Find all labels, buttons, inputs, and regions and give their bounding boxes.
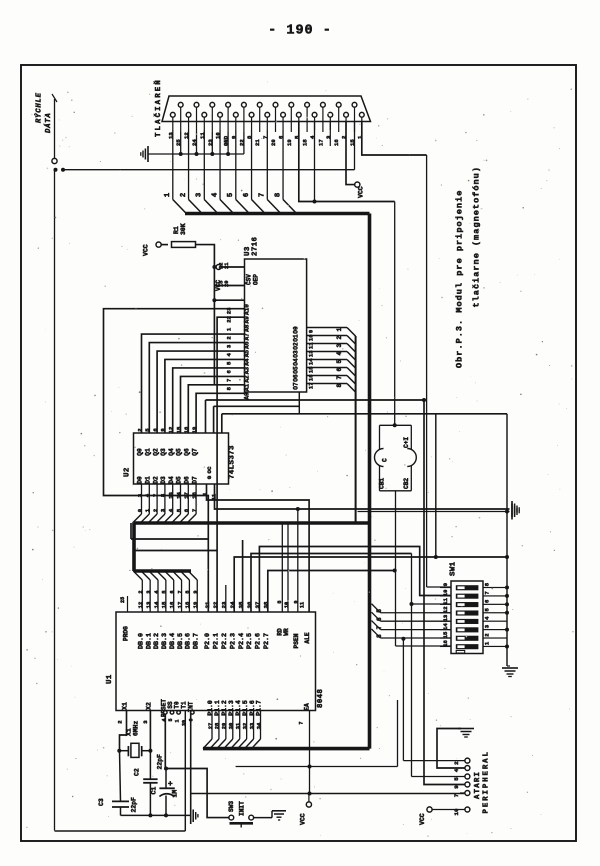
ground at OC line [512,501,519,517]
svg-text:DB.4: DB.4 [169,633,177,649]
svg-text:P2.4: P2.4 [238,633,246,649]
svg-text:9: 9 [453,785,460,789]
U2 pin labels [136,426,198,499]
bus thick vertical right [368,214,372,749]
svg-text:11: 11 [308,342,315,349]
wire U2 OC to ground line [215,484,510,509]
svg-text:3: 3 [196,193,204,197]
svg-text:4: 4 [336,352,343,356]
svg-text:7: 7 [177,590,183,593]
svg-text:D5: D5 [176,476,183,484]
svg-text:5: 5 [453,777,460,781]
U1 P1 pins slant to bus [203,711,261,749]
svg-text:OC: OC [206,466,213,473]
svg-text:2: 2 [226,336,233,340]
wire P2.2 riser [225,585,227,612]
svg-text:5: 5 [227,193,235,197]
svg-text:6: 6 [243,193,251,197]
power VCC at R1 [143,242,169,256]
svg-text:16: 16 [308,374,315,381]
svg-text:PROG: PROG [123,626,130,641]
wire SW1 row7 to ATARI [401,637,405,761]
wire CB bottom [380,491,412,646]
label PROG pin25 [120,596,130,641]
svg-text:6: 6 [376,617,383,621]
wire stub bus links [131,523,217,551]
svg-text:4: 4 [144,493,151,497]
svg-text:TLAČIAREŇ: TLAČIAREŇ [153,78,163,137]
svg-text:22pF: 22pF [157,754,164,770]
svg-text:9: 9 [442,582,449,586]
svg-text:P2.2: P2.2 [221,633,229,649]
svg-text:DB.1: DB.1 [145,633,153,649]
connector top pin stubs and numbers [175,107,356,146]
wires thick-bus taps to SW1 rows 4-7 [372,604,452,638]
U2 OC G labels [203,466,218,500]
svg-text:ALE: ALE [304,632,311,643]
wire to ground below SW1 [507,665,510,667]
svg-text:5: 5 [376,609,383,613]
wire ATARI pin2 [403,760,465,762]
svg-text:21: 21 [224,263,230,269]
wire bottom long to ATARI pin7 [191,793,465,795]
label U1 [106,674,114,684]
wire A9 to P2.0 [104,309,245,612]
wire x411 down to ATARI [411,604,413,777]
svg-text:PSEN: PSEN [293,633,300,648]
bus thick P1 horizontal [203,747,370,751]
svg-text:39: 39 [181,720,187,726]
wire ground line y511 [358,510,510,514]
svg-text:DB.0: DB.0 [138,633,146,649]
U1 P1 pin labels [207,700,263,729]
svg-text:C3: C3 [98,798,105,806]
svg-text:2: 2 [152,508,159,512]
wire RYCHLE data long horizontal [63,122,355,170]
bus slants into U1 DB pins [133,571,197,612]
wire mid horizontal y406 [214,406,300,433]
wire RESET down [164,714,168,771]
svg-text:8: 8 [484,582,491,586]
svg-text:19: 19 [191,426,198,433]
svg-text:Obr.P.3. Modul pre pripojeni: Obr.P.3. Modul pre pripojenie [455,190,465,368]
svg-text:Q0: Q0 [137,448,144,456]
IC U2 74LS373 box [134,433,229,484]
svg-text:O1: O1 [293,334,300,342]
label 74LS373 [229,445,237,479]
U1 EA label [299,703,311,725]
power VCC near connector [355,182,365,198]
svg-text:25: 25 [120,597,126,603]
svg-text:O0: O0 [293,326,300,334]
wire ATARI pin9 [422,398,465,785]
svg-text:DB.5: DB.5 [177,633,185,649]
ground symbol below SW1 [502,668,518,677]
svg-text:7: 7 [484,591,491,594]
svg-text:C1: C1 [151,787,158,795]
label U2 [124,467,132,477]
svg-text:4: 4 [154,590,160,593]
svg-text:20: 20 [270,139,277,146]
wire pin14 to vcc-node [362,122,427,156]
svg-text:INIT: INIT [239,801,246,816]
svg-text:8: 8 [274,193,282,197]
svg-text:2: 2 [138,590,144,593]
svg-text:8048: 8048 [317,688,325,708]
wire slants into data bus [173,200,297,214]
caption line 2 [472,166,482,307]
svg-text:1: 1 [144,508,151,512]
label RYCHLE DATA [35,92,58,133]
wire PSEN join [296,507,300,511]
wire P2.3 riser [234,555,509,612]
wire CS stub into U3 [214,285,244,287]
ground symbol SW3 [272,811,286,820]
svg-text:DB.3: DB.3 [161,633,169,649]
label TLACIAREN [153,78,163,137]
ground symbol ATARI [458,729,474,738]
svg-text:PERIPHERAL: PERIPHERAL [483,750,491,813]
node dot CS A10 [212,265,216,302]
svg-text:R1: R1 [173,226,180,234]
svg-text:OEP: OEP [253,274,260,285]
svg-text:8: 8 [185,590,191,593]
wire bottom-left horizontal to T1 [55,830,186,832]
capacitor C3 [98,751,138,816]
svg-text:6: 6 [484,599,491,603]
svg-text:3: 3 [136,493,143,497]
capacitor C2 [133,751,163,818]
svg-text:DB.6: DB.6 [185,633,193,649]
wire PSEN up [297,509,299,612]
svg-text:1: 1 [484,641,491,645]
SW1 slider elements [456,585,479,653]
svg-text:16: 16 [183,426,190,433]
U3 address pin labels [226,304,251,400]
svg-text:16: 16 [169,601,176,608]
svg-text:Q7: Q7 [191,448,198,456]
bus thick printer data horizontal [185,212,370,216]
label SW1 [450,561,458,576]
svg-text:P2.3: P2.3 [229,633,237,649]
connector TLACIAREN shell [162,96,371,122]
svg-text:4: 4 [161,718,167,721]
svg-text:1: 1 [203,492,209,495]
svg-text:20: 20 [224,281,230,287]
svg-text:X1: X1 [122,702,129,710]
connector bottom pin stubs and numbers [167,117,363,139]
svg-text:tlačiarne (magnetofónu): tlačiarne (magnetofónu) [472,166,482,307]
svg-text:6: 6 [226,369,233,373]
power VCC bottom [300,794,312,826]
wire mid horizontal 766 [236,700,398,767]
svg-text:C+I: C+I [403,437,410,448]
wire U3 bottom pin stub [298,392,300,414]
svg-text:O3: O3 [293,350,300,358]
svg-text:X1: X1 [126,728,133,736]
svg-text:Q6: Q6 [184,448,191,456]
wire RESET to SW3 [166,769,229,818]
svg-text:O5: O5 [293,366,300,374]
svg-text:X2: X2 [145,702,152,710]
svg-text:10: 10 [442,589,449,596]
svg-text:ATARI: ATARI [474,771,482,799]
wire X1 pin down [120,711,127,751]
node RYCHLE open circle [52,158,57,163]
switch SW1 box [451,581,483,654]
wire mid horizontal y413 [222,414,507,433]
scan noise speckle [26,81,573,837]
svg-text:VCC: VCC [419,813,426,825]
svg-text:12: 12 [442,606,449,613]
svg-text:8: 8 [376,634,383,638]
svg-text:7: 7 [453,793,460,797]
label ATARI PERIPHERAL [474,750,491,813]
svg-text:12: 12 [137,601,144,608]
svg-text:13: 13 [442,614,449,621]
svg-text:15: 15 [161,601,168,608]
crystal X1 6MHz [117,720,152,757]
wire P2.4 riser [242,540,244,612]
svg-text:27: 27 [208,723,214,729]
wire A10 stub [214,299,244,301]
svg-text:3: 3 [336,344,343,348]
wire connector ground line [148,153,244,155]
svg-text:22: 22 [212,601,219,608]
svg-text:32: 32 [242,723,248,729]
svg-text:O7: O7 [293,382,300,390]
wire P2.5 riser [251,554,412,613]
wire SW1 right common vertical [495,414,509,666]
capacitor C1 1M [151,769,179,818]
svg-text:P2.0: P2.0 [204,633,212,649]
svg-text:2: 2 [484,633,491,637]
wire SW3 to ground [254,811,272,818]
power VCC pin24 U3 [215,265,245,292]
svg-text:14: 14 [175,492,182,499]
SW1 pin stubs and numbers [440,582,495,647]
wire SW1 row8 from CB2 [396,645,452,647]
svg-text:O6: O6 [293,374,300,382]
svg-text:SW3: SW3 [228,801,235,812]
ground symbol rail [193,810,198,823]
svg-text:DB.2: DB.2 [153,633,161,649]
svg-text:13: 13 [145,601,152,608]
svg-text:29: 29 [222,723,228,729]
svg-text:12: 12 [168,426,175,433]
svg-text:13: 13 [168,492,175,499]
svg-text:D1: D1 [145,476,152,484]
transducer CB2 C+I [403,425,416,491]
wire T1 down [184,711,186,832]
svg-text:5: 5 [336,360,343,364]
wire R1 to CS net [196,245,215,385]
wire A8 to P2.1 [217,317,244,612]
svg-text:14: 14 [442,623,449,630]
svg-text:- 190 -: - 190 - [268,24,332,39]
wire X2 pin down [149,711,151,751]
svg-text:U1: U1 [106,674,114,684]
svg-text:WR: WR [283,628,290,636]
wire P2.6 riser [259,547,451,613]
svg-text:15: 15 [308,366,315,373]
U3 outputs merge to bus [293,326,356,392]
page number [268,24,332,39]
svg-text:6MHz: 6MHz [133,720,140,736]
wire RYCHLE DATA vertical [54,99,56,158]
power VCC ATARI [419,807,465,825]
svg-text:G: G [206,475,213,479]
wire mid horizontal y400 [206,400,425,433]
IC U3 2716 box [245,259,307,392]
svg-text:1: 1 [226,327,233,331]
svg-text:0: 0 [136,508,143,512]
svg-text:DÁTA: DÁTA [44,113,53,133]
svg-text:3: 3 [160,508,167,512]
svg-text:74LS373: 74LS373 [229,445,237,479]
svg-text:1: 1 [336,328,343,332]
svg-text:17: 17 [308,382,315,389]
svg-text:2716: 2716 [252,236,260,256]
wire ATARI pin5 [412,776,465,778]
bus address A7-A0 to latch Q0-Q7 [142,334,245,433]
svg-text:T1: T1 [180,701,187,709]
svg-text:16: 16 [333,139,340,146]
svg-text:7: 7 [226,379,233,382]
wire vertical x436 [434,414,438,559]
wire WR up [287,523,289,612]
svg-text:13: 13 [308,350,315,357]
svg-text:21: 21 [254,139,261,146]
svg-text:D2: D2 [152,476,159,484]
wire ATARI pin7 stub [460,792,465,794]
svg-text:21: 21 [204,601,211,608]
wires top pins to ground [179,132,244,156]
svg-text:31: 31 [236,723,242,729]
svg-text:Q2: Q2 [152,448,159,456]
svg-text:17: 17 [317,139,324,146]
svg-text:SW1: SW1 [450,561,458,576]
svg-text:Q1: Q1 [145,448,152,456]
svg-text:18: 18 [302,139,309,146]
wire EA down [308,711,312,796]
U1 X1 X2 labels [117,702,153,724]
bus U3 data vertical [355,336,357,523]
svg-text:23: 23 [221,601,228,608]
svg-text:EA: EA [304,703,311,711]
U1 control pin labels [160,699,194,726]
svg-text:18: 18 [191,492,198,499]
svg-text:5: 5 [168,718,174,721]
caption line 1 [455,190,465,368]
svg-text:3: 3 [142,720,149,724]
svg-text:14: 14 [308,358,315,365]
wire SW1 row1 from printer [427,586,451,588]
svg-text:D4: D4 [168,476,175,484]
svg-text:6: 6 [170,590,176,593]
svg-text:C2: C2 [133,768,140,776]
svg-text:VCC: VCC [143,244,150,256]
connector pins top row circles [178,102,357,107]
wire vertical x394 down to CB [394,202,396,426]
svg-text:1: 1 [175,719,181,722]
svg-text:Q5: Q5 [176,448,183,456]
svg-text:11: 11 [300,602,306,608]
svg-text:VCC: VCC [300,813,307,825]
svg-text:2: 2 [180,193,188,197]
switch SW3 INIT [228,801,254,828]
ground symbol near connector [141,146,148,162]
svg-text:10: 10 [308,334,315,341]
svg-text:O2: O2 [293,342,300,350]
svg-text:5: 5 [162,590,168,593]
svg-text:Q4: Q4 [168,448,175,456]
svg-text:19: 19 [192,601,199,608]
ground rail bottom-left [121,814,191,816]
svg-text:30K: 30K [180,223,187,235]
svg-text:3: 3 [484,624,491,628]
svg-text:+: + [168,780,174,789]
ground symbol right mid [512,504,519,520]
wire U2 G to ALE [207,484,310,612]
svg-text:D7: D7 [191,476,198,484]
svg-text:17: 17 [176,602,183,609]
svg-text:14: 14 [153,601,160,608]
svg-text:2: 2 [117,720,124,724]
svg-text:D0: D0 [137,476,144,484]
svg-text:P1.7: P1.7 [256,700,263,716]
svg-text:VCC: VCC [358,186,365,198]
svg-text:9: 9 [308,329,315,333]
node junction dots left [54,168,66,172]
svg-text:7: 7 [152,494,159,497]
svg-text:P2.5: P2.5 [246,633,254,649]
svg-text:15: 15 [442,631,449,638]
wire vertical x426 to SW1 row1 [426,155,428,587]
svg-text:2: 2 [453,761,460,765]
svg-text:8: 8 [226,386,233,390]
svg-text:Q3: Q3 [160,448,167,456]
U1 RD WR PSEN ALE labels [277,600,312,648]
wire SW1 row3 net [410,554,452,607]
svg-text:ČSV: ČSV [246,274,253,285]
svg-text:34: 34 [256,722,262,729]
wire left long vertical [54,170,56,831]
svg-text:5: 5 [226,361,233,365]
wire unused pin stub [329,122,331,147]
svg-text:9: 9 [193,590,199,593]
svg-text:22pF: 22pF [131,797,138,813]
svg-text:U2: U2 [124,467,132,477]
svg-text:18: 18 [184,601,191,608]
svg-text:P2.6: P2.6 [255,633,263,649]
svg-text:28: 28 [215,723,221,729]
svg-text:10: 10 [284,602,290,608]
bus thick latch horizontal [134,521,370,525]
wire P2.7 riser [268,569,397,613]
svg-text:C: C [382,458,389,462]
svg-text:5: 5 [175,508,182,512]
U3 control pin labels [219,263,260,287]
svg-text:4: 4 [484,616,491,620]
svg-text:1: 1 [164,192,172,197]
wire ATARI pin4 to ground [437,729,465,769]
svg-text:30: 30 [229,723,235,729]
svg-text:7: 7 [376,625,383,629]
svg-text:A8: A8 [243,324,250,332]
transducer CB1 C [375,425,389,491]
svg-text:3: 3 [146,590,152,593]
